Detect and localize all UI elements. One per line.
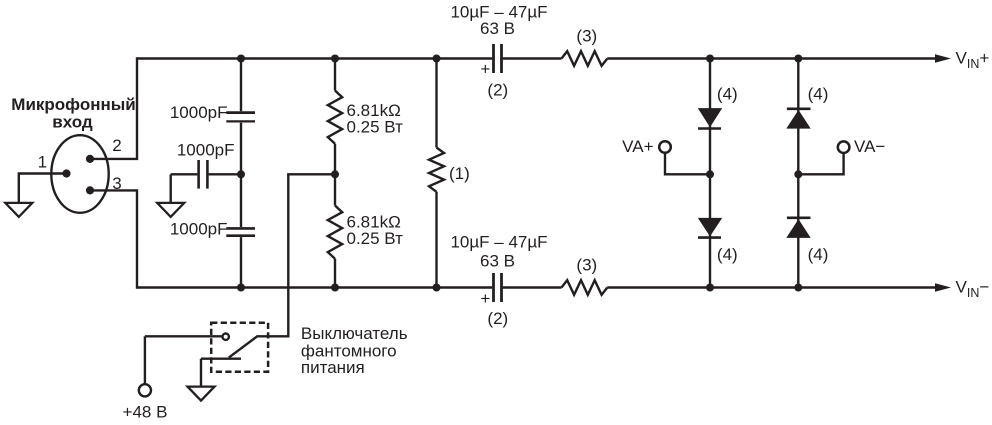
svg-text:(4): (4) bbox=[808, 85, 829, 104]
svg-text:Микрофонный: Микрофонный bbox=[11, 95, 135, 114]
svg-text:(2): (2) bbox=[487, 81, 508, 100]
svg-text:1000pF: 1000pF bbox=[177, 141, 235, 160]
svg-text:(1): (1) bbox=[449, 164, 470, 183]
svg-text:1000pF: 1000pF bbox=[170, 220, 228, 239]
svg-text:(4): (4) bbox=[717, 85, 738, 104]
svg-text:(3): (3) bbox=[576, 256, 597, 275]
svg-text:(4): (4) bbox=[808, 245, 829, 264]
svg-text:0.25 Вт: 0.25 Вт bbox=[347, 117, 404, 136]
svg-text:0.25 Вт: 0.25 Вт bbox=[347, 229, 404, 248]
svg-text:63 В: 63 В bbox=[480, 252, 515, 271]
svg-text:Выключатель: Выключатель bbox=[301, 324, 408, 343]
svg-text:VA+: VA+ bbox=[622, 137, 653, 156]
svg-text:63 В: 63 В bbox=[480, 19, 515, 38]
svg-text:+: + bbox=[480, 60, 490, 79]
svg-text:VIN−: VIN− bbox=[956, 277, 990, 300]
svg-text:(3): (3) bbox=[576, 27, 597, 46]
svg-text:VIN+: VIN+ bbox=[956, 48, 990, 71]
svg-text:питания: питания bbox=[301, 358, 365, 377]
svg-text:10µF – 47µF: 10µF – 47µF bbox=[450, 233, 547, 252]
svg-text:(2): (2) bbox=[487, 309, 508, 328]
svg-text:1: 1 bbox=[38, 153, 47, 172]
svg-text:(4): (4) bbox=[717, 245, 738, 264]
svg-text:2: 2 bbox=[112, 136, 121, 155]
svg-text:VA−: VA− bbox=[854, 137, 885, 156]
svg-text:1000pF: 1000pF bbox=[170, 103, 228, 122]
svg-text:+48 В: +48 В bbox=[123, 403, 168, 422]
svg-text:+: + bbox=[480, 289, 490, 308]
svg-text:вход: вход bbox=[52, 112, 93, 131]
svg-text:3: 3 bbox=[112, 174, 121, 193]
